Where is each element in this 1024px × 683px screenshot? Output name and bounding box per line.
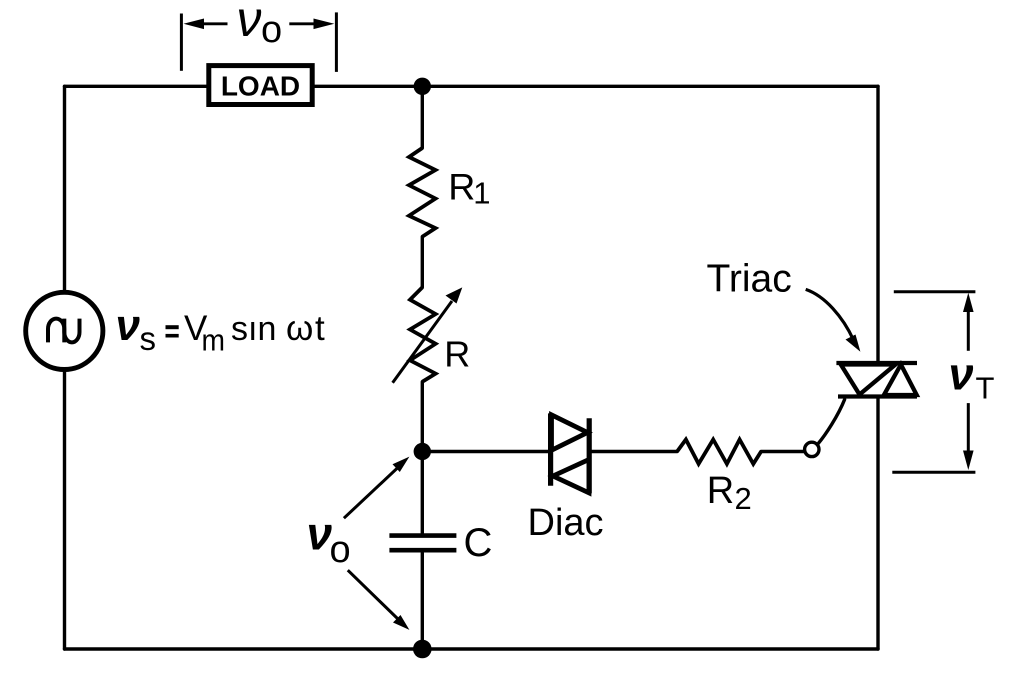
svg-text:ν: ν: [237, 0, 262, 47]
svg-text:o: o: [330, 529, 351, 571]
svg-text:R: R: [448, 166, 475, 208]
svg-text:ω: ω: [286, 309, 313, 348]
svg-text:Triac: Triac: [707, 258, 792, 301]
svg-text:t: t: [315, 309, 325, 348]
svg-text:Diac: Diac: [528, 502, 604, 544]
svg-text:T: T: [976, 371, 995, 406]
svg-text:o: o: [261, 9, 282, 51]
svg-text:R: R: [444, 333, 470, 374]
svg-text:R: R: [707, 470, 734, 512]
svg-text:C: C: [464, 521, 493, 565]
svg-text:2: 2: [735, 481, 752, 516]
svg-text:ν: ν: [116, 301, 141, 350]
svg-text:s: s: [140, 320, 157, 357]
svg-text:LOAD: LOAD: [221, 71, 300, 102]
svg-text:m: m: [202, 322, 226, 357]
svg-text:1: 1: [473, 176, 490, 211]
svg-text:sın: sın: [231, 310, 276, 348]
svg-text:ν: ν: [949, 348, 974, 399]
